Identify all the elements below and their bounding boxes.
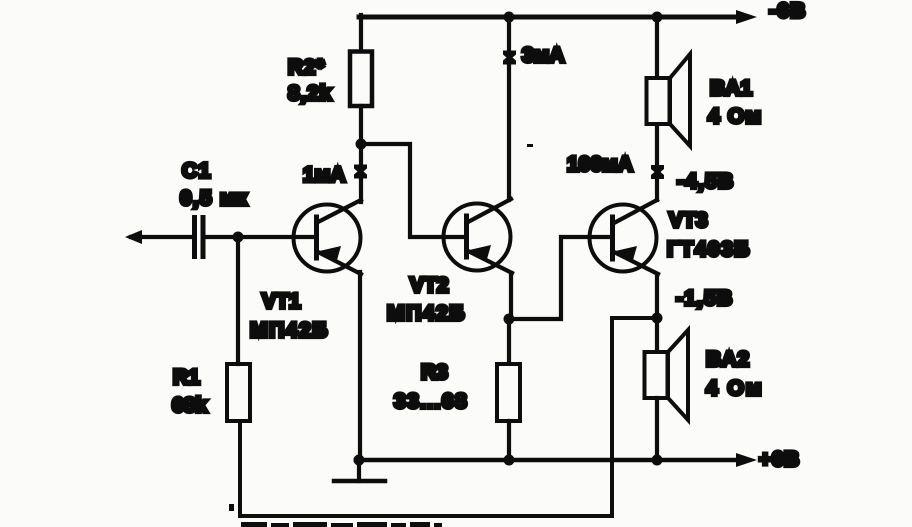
svg-text:8,2k: 8,2k <box>288 82 332 105</box>
wire VT3 emitter down <box>655 274 659 318</box>
wire BA2 top stem <box>655 318 659 352</box>
svg-text:33...68: 33...68 <box>394 390 468 413</box>
node VT2 emitter / R3 / VT3 base <box>504 314 515 325</box>
svg-text:МП42Б: МП42Б <box>250 319 329 342</box>
wire node to VT3 base <box>509 237 611 319</box>
resistor R2 <box>350 52 372 107</box>
arrow -6V rail <box>736 10 757 24</box>
svg-text:VT1: VT1 <box>262 290 301 313</box>
svg-text:R2*: R2* <box>288 56 325 79</box>
caption fragment cut at bottom edge <box>241 522 442 527</box>
wire R1 top stem <box>236 237 240 364</box>
wire BA2 bottom stem <box>655 398 659 460</box>
speck artifact left of bottom line <box>229 504 234 511</box>
ground <box>334 460 385 481</box>
svg-text:4 Ом: 4 Ом <box>708 105 762 128</box>
wire R3 bottom to +6V rail <box>507 421 511 460</box>
arrow input <box>125 230 142 244</box>
speaker BA2 <box>645 330 689 420</box>
wire R2 top stem <box>359 15 363 51</box>
wire VT3 collector up to BA1 <box>655 124 659 200</box>
svg-text:C1: C1 <box>182 160 212 183</box>
svg-text:+6В: +6В <box>759 448 800 471</box>
wire node to R3 <box>507 319 511 364</box>
svg-text:3мА: 3мА <box>522 44 564 67</box>
resistor R1 <box>227 364 250 421</box>
node bottom rail / VT1 emitter <box>354 455 365 466</box>
node R2 bottom / VT2 base branch <box>356 139 367 150</box>
wire VT1 emitter down <box>358 272 362 458</box>
wire VT2 emitter down to R3 node <box>509 273 513 319</box>
current arrow 100mA <box>651 165 664 179</box>
svg-text:VT2: VT2 <box>410 274 449 297</box>
node VT3 emitter / BA2 / feedback <box>652 313 663 324</box>
speaker BA1 <box>647 54 691 146</box>
current arrow 1mA <box>354 165 367 179</box>
speck artifact <box>527 144 533 147</box>
svg-text:68k: 68k <box>172 394 207 417</box>
node top rail / BA1 column <box>652 12 663 23</box>
svg-text:-1,5В: -1,5В <box>676 287 733 310</box>
arrow +6V rail <box>736 453 757 467</box>
svg-text:BA2: BA2 <box>706 348 750 371</box>
wire feedback: node to bottom line to R1 <box>240 318 657 516</box>
wire VT2 collector up to top rail <box>507 16 511 200</box>
transistor VT3 <box>590 200 659 274</box>
transistor VT2 <box>444 199 513 273</box>
wire bottom rail +6V <box>356 458 739 463</box>
transistor VT1 <box>294 200 362 274</box>
svg-text:VT3: VT3 <box>669 209 708 232</box>
svg-text:4 Ом: 4 Ом <box>706 377 763 400</box>
wire top rail -6V <box>359 15 739 20</box>
svg-text:1мА: 1мА <box>303 164 345 187</box>
svg-text:R3: R3 <box>421 361 448 384</box>
wire branch node to VT2 base <box>361 144 464 237</box>
svg-text:R1: R1 <box>173 366 200 389</box>
svg-text:МП42Б: МП42Б <box>387 302 466 325</box>
resistor R3 <box>497 364 520 421</box>
node input / R1 top <box>233 232 244 243</box>
wire R2 bottom to VT1 collector <box>359 106 363 202</box>
current arrow 3mA <box>503 51 516 65</box>
node bottom rail / R3 <box>504 455 515 466</box>
svg-text:-6В: -6В <box>769 0 806 23</box>
node top rail / VT2 collector column <box>504 12 515 23</box>
svg-text:-4,5В: -4,5В <box>677 170 734 193</box>
svg-text:100мА: 100мА <box>567 153 633 176</box>
svg-text:BA1: BA1 <box>710 77 752 100</box>
wire input to C1 <box>131 235 192 239</box>
wire BA1 top stem <box>655 16 659 78</box>
svg-text:0,5 мк: 0,5 мк <box>180 187 248 210</box>
svg-text:ГТ403Б: ГТ403Б <box>667 238 751 261</box>
capacitor C1 <box>192 215 206 259</box>
node bottom rail / BA2 <box>652 455 663 466</box>
wire C1 to VT1 base <box>205 235 315 239</box>
